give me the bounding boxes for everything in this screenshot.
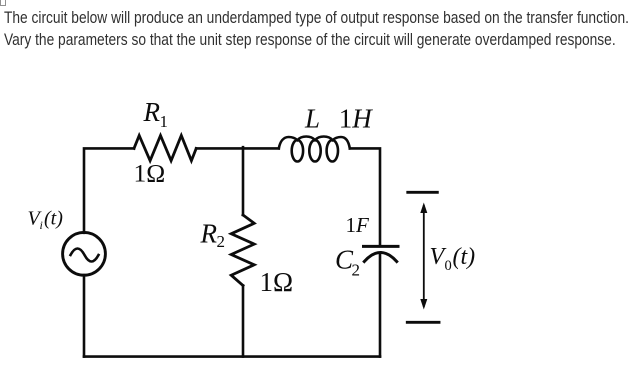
corner mark of outer document frame	[0, 0, 6, 6]
svg-text:1H: 1H	[339, 104, 374, 134]
wire: right rail capacitor to bottom rail	[379, 253, 382, 357]
output marker Vo bottom bar	[407, 321, 439, 324]
svg-text:0: 0	[445, 258, 452, 274]
svg-text:(t): (t)	[44, 208, 63, 230]
output marker Vo arrow shaft	[423, 206, 425, 306]
svg-text:2: 2	[217, 232, 226, 251]
wire: bottom rail	[84, 355, 380, 358]
wire: top-right segment inductor to right rail corner	[350, 148, 380, 246]
svg-text:1: 1	[160, 112, 169, 131]
wire: middle branch R2 to bottom rail	[242, 286, 245, 357]
wire: top middle segment R1 to inductor (through node at x=243)	[196, 147, 279, 150]
capacitor C2 curved bottom plate	[364, 252, 396, 261]
svg-text:1Ω: 1Ω	[134, 158, 166, 187]
capacitor C2 top plate	[364, 245, 399, 248]
svg-text:2: 2	[352, 261, 361, 280]
svg-text:i: i	[40, 218, 43, 232]
output marker Vo arrowhead down	[420, 299, 427, 310]
wire: left rail below source	[83, 275, 86, 357]
resistor R2	[231, 215, 254, 286]
svg-text:1Ω: 1Ω	[260, 267, 294, 297]
voltage source Vi circle	[63, 232, 106, 275]
svg-text:R: R	[143, 97, 161, 127]
output marker Vo top bar	[408, 191, 438, 194]
svg-text:(t): (t)	[453, 244, 476, 270]
resistor R1	[134, 136, 196, 161]
inductor L1	[279, 137, 350, 162]
output marker Vo arrowhead up	[420, 203, 427, 214]
wire: top-left segment from left rail to R1	[84, 148, 134, 232]
svg-text:L: L	[304, 104, 320, 134]
problem statement text	[4, 7, 640, 50]
voltage source sine symbol	[71, 249, 99, 262]
svg-text:R: R	[200, 219, 218, 249]
svg-text:1F: 1F	[346, 213, 370, 237]
node/wire: middle branch from top rail down to R2	[242, 147, 245, 215]
